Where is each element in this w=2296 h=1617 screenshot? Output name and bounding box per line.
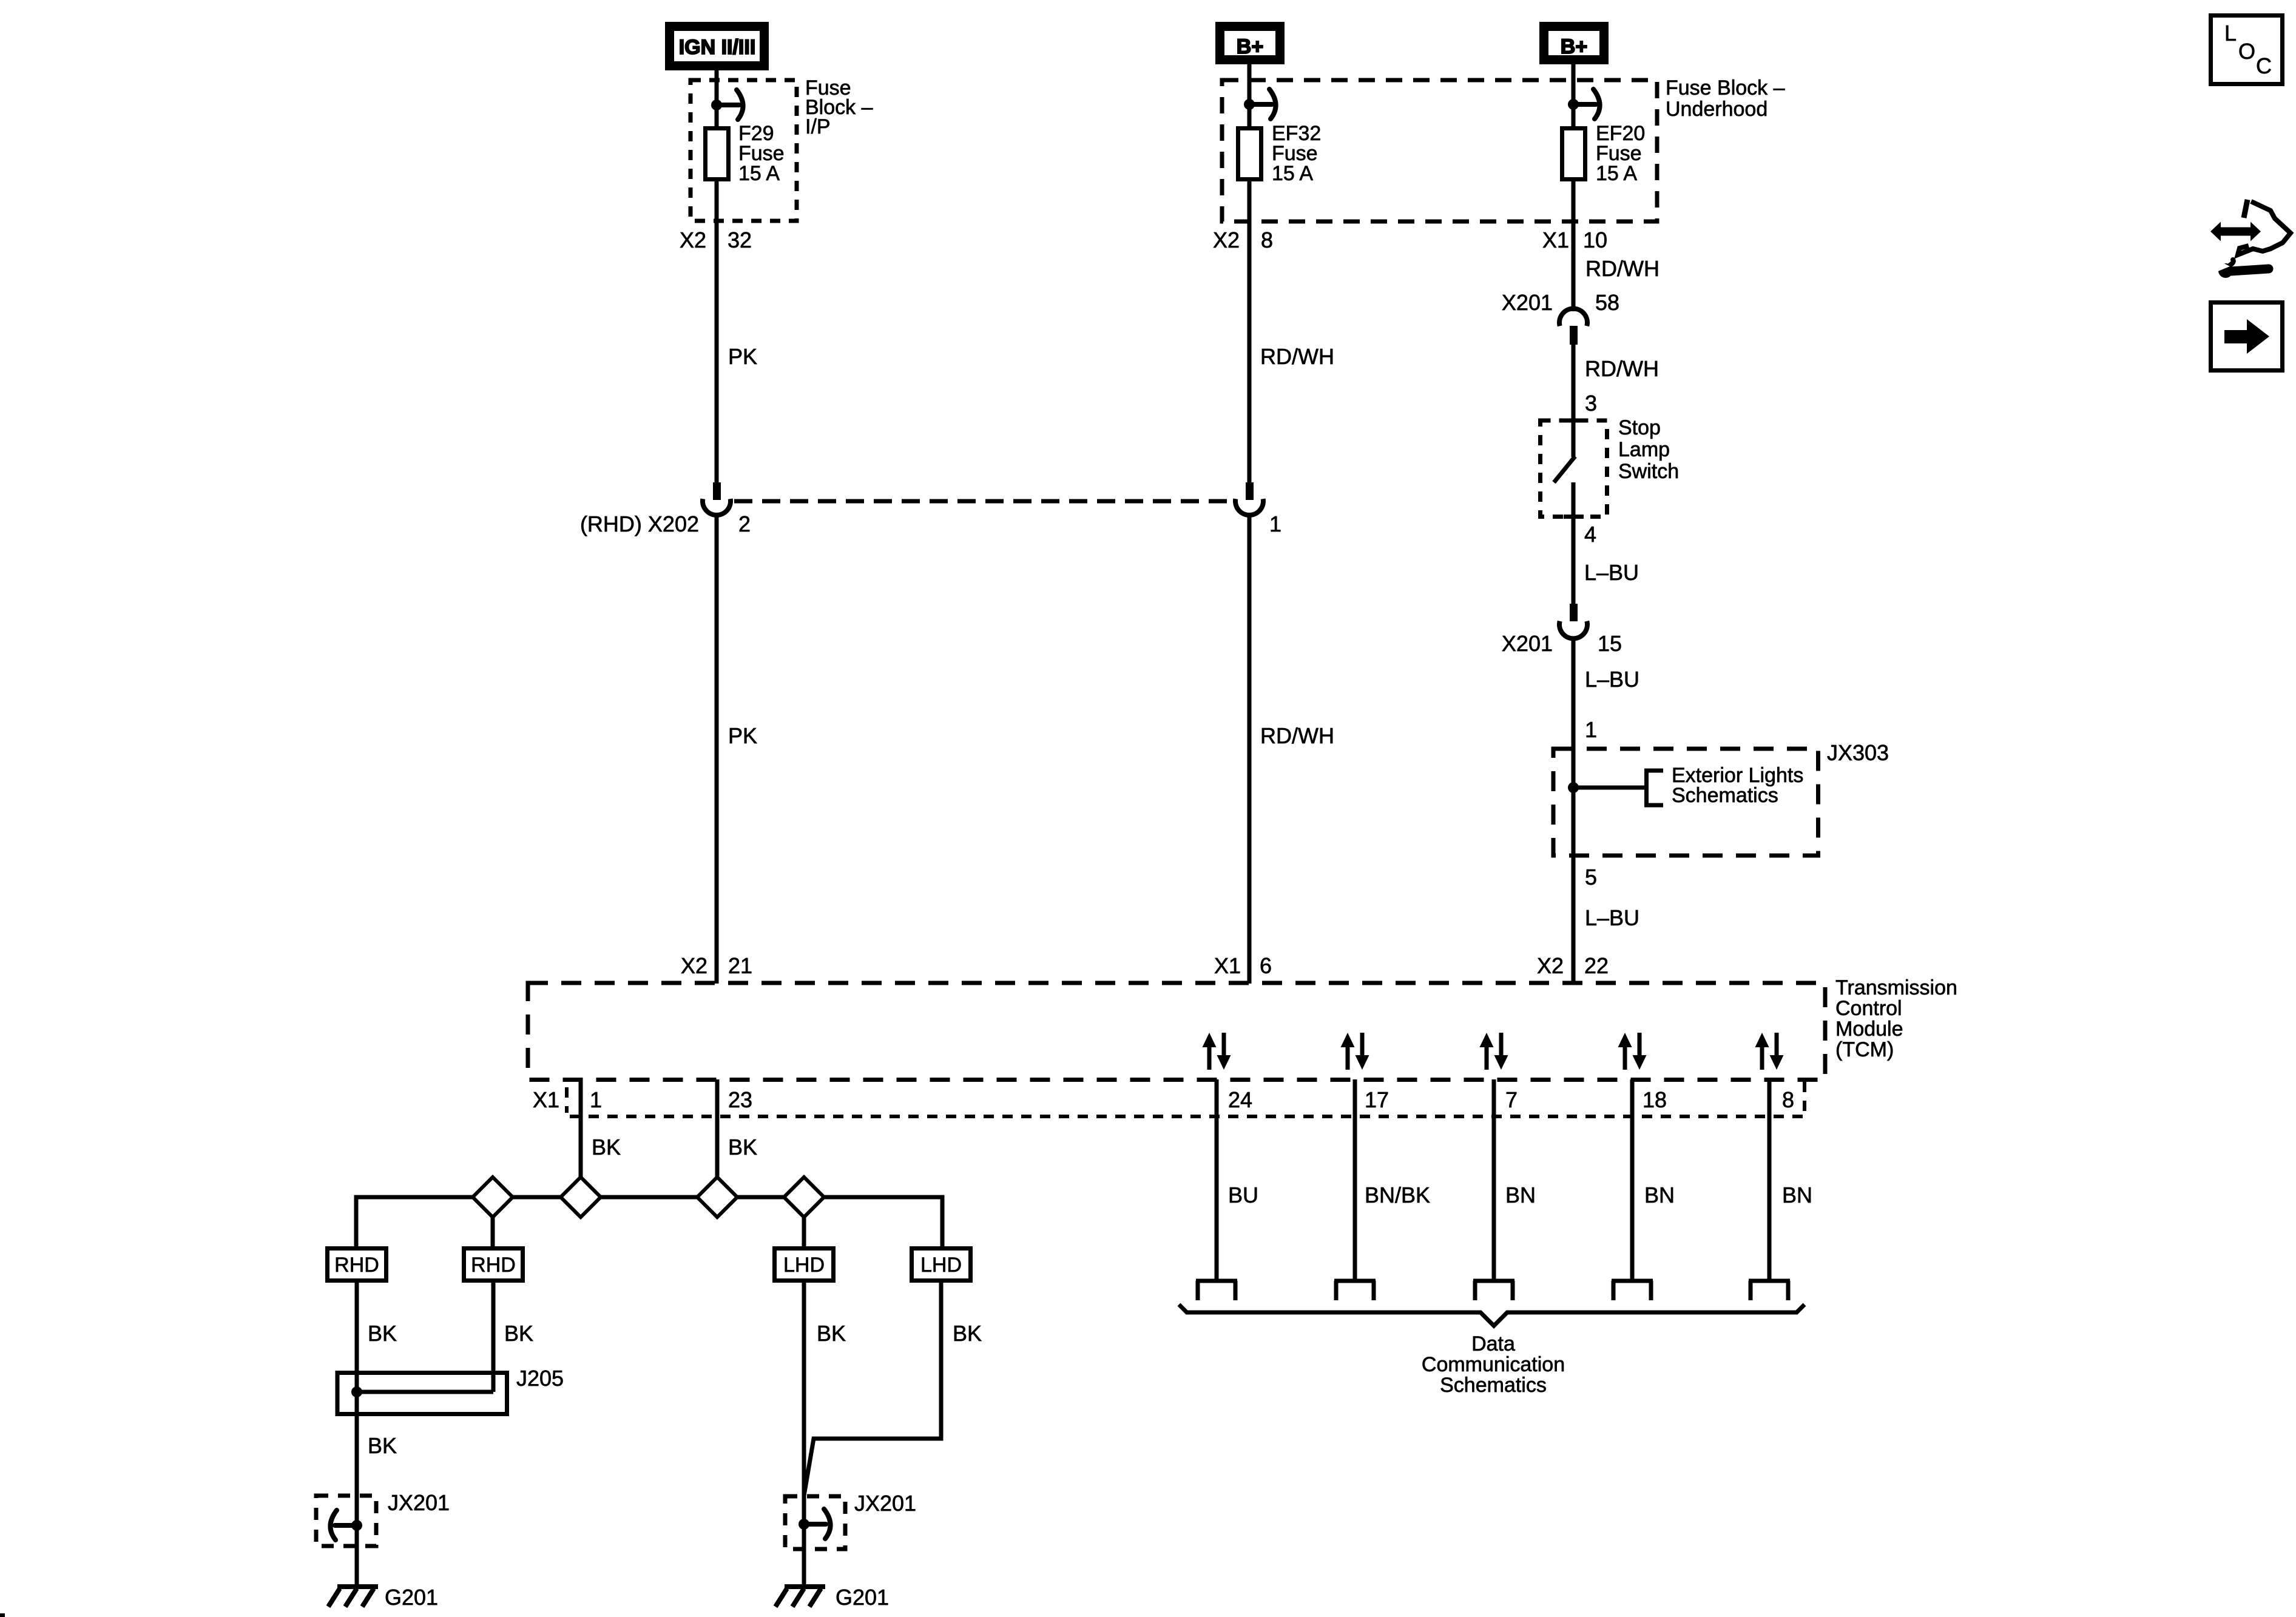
wire TCM pin23 to splice: [715, 1079, 720, 1180]
svg-text:G201: G201: [836, 1585, 889, 1610]
fuse F29: [706, 122, 785, 185]
junction dot in JX201 right: [799, 1519, 809, 1530]
splice pack J205: [337, 1366, 564, 1414]
svg-text:1: 1: [1269, 511, 1281, 536]
power terminal B+ (right): [1544, 27, 1604, 60]
wire X201-58 to stop lamp switch: [1572, 343, 1576, 457]
serial data arrows pin 17: [1341, 1033, 1369, 1070]
ground bus wire: [356, 1197, 942, 1247]
svg-text:3: 3: [1585, 391, 1597, 416]
pin label X2|8: [1213, 228, 1273, 252]
junction dot at F29 feed: [711, 100, 722, 110]
serial data arrows pin 18: [1618, 1033, 1647, 1070]
svg-text:Fuse Block –: Fuse Block –: [1666, 76, 1785, 100]
terminal pin 17: [1334, 1281, 1376, 1300]
in-line connector X201 pin 58: [1502, 290, 1619, 345]
ground G201 left: [328, 1585, 438, 1610]
svg-text:X2: X2: [1537, 953, 1564, 978]
in-line connector X201 pin 15: [1502, 604, 1622, 656]
stop lamp switch dashed box: [1541, 416, 1680, 517]
pin label X2|22: [1537, 953, 1609, 978]
serial data arrows pin 8: [1755, 1033, 1784, 1070]
branch hook at EF32 feed: [1249, 89, 1276, 119]
svg-text:BN: BN: [1644, 1183, 1675, 1207]
wire EF32 to X202 link: [1248, 181, 1252, 484]
splice diamond S4: [784, 1177, 824, 1217]
svg-text:15 A: 15 A: [1272, 162, 1313, 185]
svg-text:LHD: LHD: [783, 1254, 825, 1277]
svg-text:18: 18: [1643, 1087, 1667, 1112]
wire F29 to X202: [715, 181, 719, 484]
wire IGN to fuse F29: [715, 70, 719, 129]
svg-text:I/P: I/P: [805, 115, 831, 138]
branch hook at F29 feed: [717, 90, 743, 120]
svg-text:X2: X2: [680, 228, 706, 252]
dashed connector link X202: [734, 499, 1234, 504]
svg-text:58: 58: [1595, 290, 1619, 315]
splice diamond S2: [561, 1177, 601, 1217]
terminal pin 7: [1473, 1281, 1514, 1300]
svg-text:22: 22: [1584, 953, 1609, 978]
junction dot in J205: [351, 1386, 362, 1397]
wire LHD2 down and over: [804, 1283, 941, 1496]
junction JX201 left dashed box: [316, 1490, 450, 1546]
data communication label: [1422, 1332, 1565, 1397]
svg-text:15: 15: [1598, 631, 1622, 656]
junction JX201 right dashed box: [785, 1491, 916, 1549]
splice diamond S1: [473, 1177, 513, 1217]
option box LHD 2: [912, 1249, 971, 1281]
wire LHD1 to JX201: [802, 1283, 806, 1588]
wire splice 4 to LHD1: [802, 1217, 806, 1247]
svg-text:JX303: JX303: [1827, 740, 1889, 765]
svg-text:BN: BN: [1782, 1183, 1812, 1207]
svg-text:O: O: [2238, 39, 2255, 64]
terminal pin 18: [1612, 1281, 1653, 1300]
ground G201 right: [775, 1585, 889, 1610]
svg-text:IGN II/III: IGN II/III: [679, 36, 756, 59]
svg-text:6: 6: [1260, 953, 1272, 978]
svg-text:15 A: 15 A: [738, 162, 780, 185]
wire X202 to TCM (middle): [1248, 515, 1252, 984]
svg-text:7: 7: [1505, 1087, 1518, 1112]
svg-text:BK: BK: [817, 1321, 846, 1346]
svg-text:X201: X201: [1502, 290, 1553, 315]
TCM dashed box: [528, 976, 1957, 1080]
svg-text:L: L: [2224, 21, 2237, 46]
svg-text:RD/WH: RD/WH: [1585, 256, 1660, 281]
svg-text:RHD: RHD: [334, 1254, 379, 1277]
option box RHD 1: [328, 1249, 387, 1281]
hand pointer icon: [2209, 200, 2291, 278]
wire EF20 to X201-58: [1572, 181, 1576, 311]
svg-text:Lamp: Lamp: [1618, 438, 1670, 461]
svg-text:L–BU: L–BU: [1585, 905, 1639, 930]
svg-text:BK: BK: [728, 1135, 757, 1160]
wire to exterior lights bracket: [1573, 786, 1646, 790]
svg-text:BK: BK: [368, 1433, 397, 1458]
wire TCM pin24 to terminal: [1215, 1079, 1219, 1281]
svg-text:B+: B+: [1561, 35, 1587, 58]
svg-text:L–BU: L–BU: [1585, 667, 1639, 692]
wire switch to X201-15: [1572, 515, 1576, 604]
svg-text:5: 5: [1585, 865, 1597, 890]
svg-text:1: 1: [590, 1087, 602, 1112]
pin label X2|21: [681, 953, 752, 978]
wire B+ to fuse EF32: [1248, 64, 1252, 129]
svg-text:PK: PK: [728, 344, 757, 369]
fuse EF32: [1238, 122, 1322, 185]
svg-text:PK: PK: [728, 723, 757, 748]
svg-text:Stop: Stop: [1618, 416, 1661, 439]
svg-text:RD/WH: RD/WH: [1260, 723, 1334, 748]
svg-text:RD/WH: RD/WH: [1585, 356, 1659, 381]
svg-text:RHD: RHD: [471, 1254, 516, 1277]
switch lower contact: [1572, 482, 1576, 519]
svg-text:23: 23: [728, 1087, 752, 1112]
branch hook JX201 left: [330, 1510, 357, 1540]
switch blade: [1554, 456, 1575, 482]
in-line connector X202 pin 2 (left wire): [580, 482, 751, 536]
wire RHD1 to J205: [355, 1283, 359, 1392]
svg-text:21: 21: [728, 953, 752, 978]
svg-text:G201: G201: [385, 1585, 438, 1610]
svg-text:Module: Module: [1835, 1018, 1903, 1041]
svg-text:B+: B+: [1237, 35, 1263, 58]
svg-text:BK: BK: [592, 1135, 621, 1160]
pin label X1|1: [533, 1087, 602, 1112]
power terminal IGN II/III: [670, 27, 765, 66]
svg-text:(TCM): (TCM): [1835, 1038, 1894, 1061]
junction dot at EF32 feed: [1244, 99, 1255, 110]
terminal pin 8: [1749, 1281, 1790, 1300]
data communication brace: [1179, 1305, 1805, 1326]
svg-text:Underhood: Underhood: [1666, 98, 1768, 121]
serial data arrows pin 24: [1203, 1033, 1231, 1070]
pin label X1|10: [1542, 228, 1607, 252]
terminal pin 24: [1196, 1281, 1237, 1300]
wire TCM pin1 to splice: [579, 1079, 583, 1180]
wire TCM pin8 to terminal: [1768, 1079, 1772, 1281]
scan artifact bottom-left: [0, 1613, 5, 1617]
serial data arrows pin 7: [1480, 1033, 1508, 1070]
svg-text:4: 4: [1584, 522, 1596, 547]
svg-text:LHD: LHD: [920, 1254, 962, 1277]
wire TCM pin17 to terminal: [1353, 1079, 1357, 1281]
svg-text:(RHD) X202: (RHD) X202: [580, 511, 699, 536]
svg-text:32: 32: [728, 228, 752, 252]
LOC legend box: [2211, 16, 2283, 84]
svg-text:BK: BK: [504, 1321, 533, 1346]
svg-text:X1: X1: [1214, 953, 1241, 978]
svg-text:JX201: JX201: [388, 1490, 450, 1515]
pin label X1|6: [1214, 953, 1272, 978]
in-line connector X202 pin 1 (middle wire): [1235, 482, 1281, 536]
svg-text:C: C: [2256, 53, 2272, 78]
wire X201-15 to JX303: [1572, 637, 1576, 984]
svg-text:BN: BN: [1505, 1183, 1536, 1207]
fuse EF20: [1562, 122, 1646, 185]
junction dot in JX201 left: [351, 1520, 362, 1531]
svg-text:15 A: 15 A: [1596, 162, 1637, 185]
branch hook JX201 right: [804, 1509, 831, 1539]
wire inside J205: [357, 1390, 493, 1394]
power terminal B+ (left): [1220, 27, 1280, 60]
pin label X2|32: [680, 228, 752, 252]
svg-text:J205: J205: [516, 1366, 564, 1391]
svg-text:X201: X201: [1502, 631, 1553, 656]
svg-text:X1: X1: [1542, 228, 1569, 252]
svg-text:8: 8: [1782, 1087, 1794, 1112]
svg-text:X1: X1: [533, 1087, 559, 1112]
svg-text:Data: Data: [1471, 1332, 1515, 1355]
svg-text:Schematics: Schematics: [1440, 1374, 1547, 1397]
wire splice 1 to RHD2: [491, 1217, 495, 1247]
svg-text:10: 10: [1583, 228, 1607, 252]
svg-text:Switch: Switch: [1618, 460, 1679, 483]
svg-text:17: 17: [1365, 1087, 1389, 1112]
svg-text:BU: BU: [1228, 1183, 1258, 1207]
wire TCM pin7 to terminal: [1492, 1079, 1496, 1281]
svg-text:BK: BK: [368, 1321, 397, 1346]
splice diamond S3: [697, 1177, 737, 1217]
svg-text:X2: X2: [681, 953, 707, 978]
svg-text:1: 1: [1585, 717, 1597, 742]
svg-text:Control: Control: [1835, 997, 1902, 1020]
junction JX303 dashed box: [1553, 740, 1889, 856]
svg-text:2: 2: [738, 511, 751, 536]
option box LHD 1: [775, 1249, 834, 1281]
svg-text:Transmission: Transmission: [1835, 976, 1957, 999]
svg-text:24: 24: [1228, 1087, 1252, 1112]
svg-text:RD/WH: RD/WH: [1260, 344, 1334, 369]
bracket to exterior lights schematics: [1647, 771, 1664, 805]
junction dot at EF20 feed: [1568, 99, 1579, 110]
svg-text:L–BU: L–BU: [1584, 560, 1639, 585]
fuse block I/P dashed box: [690, 76, 873, 221]
wire TCM pin18 to terminal: [1630, 1079, 1635, 1281]
svg-text:8: 8: [1261, 228, 1273, 252]
junction dot in JX303: [1568, 782, 1579, 793]
TCM X1 connector face fine dashed line: [567, 1082, 1805, 1116]
fuse block Underhood dashed box: [1222, 76, 1785, 221]
svg-text:Schematics: Schematics: [1672, 784, 1778, 807]
svg-text:X2: X2: [1213, 228, 1240, 252]
option box RHD 2: [464, 1249, 523, 1281]
wire B+ to fuse EF20: [1572, 64, 1576, 129]
wire J205 to JX201: [355, 1392, 359, 1588]
svg-text:BN/BK: BN/BK: [1365, 1183, 1430, 1207]
svg-text:JX201: JX201: [854, 1491, 916, 1516]
wire X202 to TCM (left): [715, 515, 719, 984]
branch hook at EF20 feed: [1573, 89, 1600, 119]
forward arrow box: [2211, 303, 2283, 371]
wire RHD2 to J205: [491, 1283, 496, 1392]
svg-text:BK: BK: [953, 1321, 982, 1346]
svg-text:Communication: Communication: [1422, 1353, 1565, 1376]
